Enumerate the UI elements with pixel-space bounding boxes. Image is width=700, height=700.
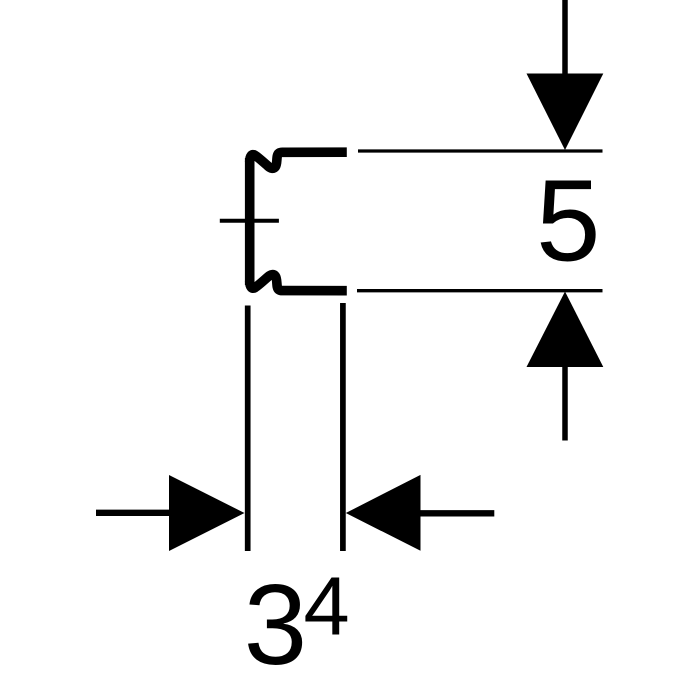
bottom arrow head (up) <box>527 292 604 368</box>
profile left vertical line <box>245 158 255 285</box>
center line tick <box>220 219 279 223</box>
left extension line <box>245 306 251 552</box>
top arrow stem <box>562 0 568 75</box>
profile bottom flange with rolled hook <box>250 275 347 291</box>
svg-text:5: 5 <box>536 156 601 286</box>
right arrow stem <box>421 510 495 516</box>
profile top flange with rolled hook <box>250 152 347 168</box>
left arrow head (right) <box>169 475 245 551</box>
bottom dimension line (5) <box>357 289 603 292</box>
right arrow head (left) <box>346 475 421 551</box>
right extension line <box>340 303 346 551</box>
top arrow head (down) <box>527 74 604 151</box>
svg-text:4: 4 <box>304 560 350 653</box>
bottom arrow stem <box>562 366 568 441</box>
svg-text:3: 3 <box>244 562 307 689</box>
top dimension line (5) <box>358 149 603 152</box>
left arrow stem <box>96 510 170 516</box>
